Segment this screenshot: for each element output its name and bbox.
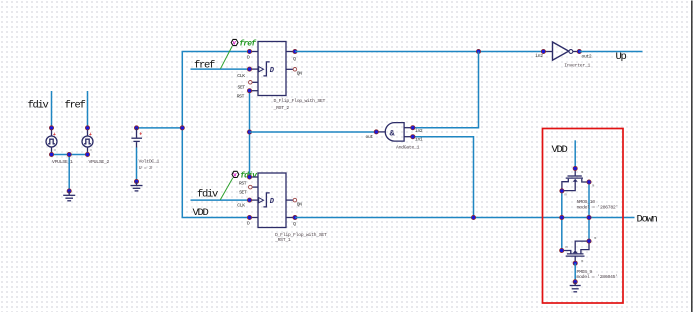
svg-text:VPULSE_2: VPULSE_2	[89, 159, 110, 165]
svg-text:fref: fref	[239, 40, 257, 49]
node in1/Down junction	[471, 215, 475, 219]
wire AND in2 riser	[413, 52, 479, 128]
node PMOS left	[560, 248, 564, 252]
wire fref source top	[87, 91, 89, 128]
wire Down row	[295, 217, 635, 219]
node VDD rail junction	[180, 126, 184, 130]
svg-text:out2: out2	[582, 54, 592, 60]
svg-text:AndGate_1: AndGate_1	[396, 144, 420, 150]
and gate AndGate_1 (mirrored)	[366, 123, 423, 151]
net label VDD (in box)	[552, 144, 568, 156]
node VPULSE_2 top	[85, 126, 89, 130]
svg-text:fdiv: fdiv	[197, 189, 218, 201]
wire fdiv stub to CLK	[191, 199, 250, 201]
svg-text:m: m	[594, 237, 597, 241]
svg-text:CLK: CLK	[237, 73, 245, 79]
node NMOS gate	[587, 180, 591, 184]
svg-text:Inverter_1: Inverter_1	[564, 62, 590, 68]
wire VDD rail vertical	[182, 52, 249, 218]
ground (sources)	[63, 191, 75, 201]
node Down/gate junction	[587, 215, 591, 219]
node Q wire junction	[476, 49, 480, 53]
node sources mid junction	[67, 152, 71, 156]
node U2 D pin	[247, 49, 251, 53]
wire NMOS gate to PMOS gate	[588, 182, 590, 241]
svg-text:QN: QN	[297, 71, 302, 77]
wire sources bottom	[52, 154, 88, 156]
window border right	[691, 1, 693, 312]
svg-text:D: D	[270, 198, 275, 206]
node U1 D pin	[247, 215, 251, 219]
node U2 RST pin	[247, 89, 251, 93]
wire AND out to RST rail	[250, 131, 377, 133]
node Down/source junction	[560, 215, 564, 219]
node RST/AND junction	[247, 130, 251, 134]
node inverter in	[541, 49, 545, 53]
svg-text:+: +	[139, 132, 142, 138]
svg-text:D_Flip_Flop_with_SET: D_Flip_Flop_with_SET	[275, 232, 327, 238]
svg-text:model = '286782': model = '286782'	[577, 205, 618, 211]
pulse source VPULSE_1	[46, 128, 73, 165]
wire RST vertical (U2 to U1)	[249, 91, 251, 177]
svg-text:&: &	[390, 128, 396, 138]
svg-text:CLK: CLK	[237, 202, 245, 208]
svg-text:Up: Up	[616, 51, 627, 63]
pulse source VPULSE_2	[82, 128, 110, 165]
node U1 RST pin	[247, 175, 251, 179]
svg-text:m: m	[581, 171, 584, 175]
svg-text:D: D	[247, 55, 250, 61]
node U1 CLK pin	[247, 198, 251, 202]
node above ground 3	[573, 280, 577, 284]
net label Down	[637, 213, 658, 225]
svg-text:QN: QN	[297, 202, 302, 208]
svg-text:SET: SET	[238, 84, 246, 90]
selection box (red)	[543, 129, 624, 304]
svg-text:D: D	[270, 67, 275, 75]
svg-text:D: D	[247, 221, 250, 227]
flip-flop U1 D_Flip_Flop_with_SET_RST_1	[237, 173, 327, 243]
transistor NMOS_10	[562, 169, 618, 211]
ground (VoltDC)	[131, 182, 143, 191]
svg-text:fref: fref	[65, 99, 86, 111]
node above ground 1	[67, 189, 71, 193]
wire fref stub to CLK	[191, 68, 250, 70]
node U1 Q pin	[293, 215, 297, 219]
svg-text:+: +	[89, 132, 92, 138]
node NMOS source	[560, 189, 564, 193]
voltage probe fdiv	[220, 171, 258, 199]
ground (PMOS)	[570, 282, 581, 292]
svg-text:out: out	[366, 134, 374, 140]
flip-flop U2 D_Flip_Flop_with_SET_RST_2	[237, 42, 326, 111]
svg-text:in1: in1	[415, 137, 423, 143]
node VPULSE_1 bottom	[49, 152, 53, 156]
wire VDD stub (box)	[574, 140, 576, 168]
svg-text:D_Flip_Flop_with_SET: D_Flip_Flop_with_SET	[274, 98, 326, 104]
node inverter out	[577, 49, 581, 53]
svg-text:RST: RST	[239, 180, 247, 186]
net label fref (at U2)	[194, 59, 215, 71]
svg-text:+: +	[53, 132, 56, 138]
wire VoltDC to VDD rail	[137, 127, 183, 129]
svg-text:fref: fref	[194, 59, 215, 71]
transistor PMOS_9	[562, 237, 618, 280]
wire U2 Q to inverter	[295, 51, 543, 53]
node above ground 2	[134, 179, 138, 183]
svg-text:U = 3: U = 3	[139, 165, 152, 171]
svg-text:m: m	[565, 194, 568, 198]
svg-text:_RST_1: _RST_1	[274, 237, 291, 243]
node NMOS drain	[573, 166, 577, 170]
dc source VoltDC_1 V = 3	[131, 128, 159, 171]
node AND in1	[411, 135, 415, 139]
svg-text:in2: in2	[415, 128, 423, 134]
svg-text:Down: Down	[637, 213, 658, 225]
node VPULSE_2 bottom	[85, 152, 89, 156]
svg-text:Q: Q	[293, 56, 296, 62]
wire fdiv source top	[51, 91, 53, 128]
svg-text:SET: SET	[239, 189, 247, 195]
wire AND in1 to Down	[413, 137, 474, 218]
svg-text:=: =	[54, 148, 57, 153]
net label fref (left)	[65, 99, 86, 111]
svg-text:model = '286045': model = '286045'	[577, 274, 618, 280]
svg-text:m: m	[566, 246, 569, 250]
svg-text:VoltDC_1: VoltDC_1	[139, 159, 160, 165]
voltage probe fref	[221, 39, 258, 68]
node VoltDC top	[134, 126, 138, 130]
net label Up	[616, 51, 627, 63]
svg-text:=: =	[90, 148, 93, 153]
svg-text:RST: RST	[237, 93, 245, 99]
svg-text:NMOS_10: NMOS_10	[577, 199, 595, 205]
svg-text:VDD: VDD	[193, 207, 209, 219]
node AND in2	[411, 126, 415, 130]
wire PMOS to ground	[574, 263, 576, 282]
wire Up output	[579, 51, 642, 53]
net label fdiv (left)	[28, 99, 49, 111]
svg-text:_RST_2: _RST_2	[273, 105, 290, 111]
wire NMOS source to PMOS	[561, 191, 563, 251]
node PMOS bottom	[573, 261, 577, 265]
wire VoltDC to ground	[136, 148, 138, 182]
net label VDD (at U1)	[193, 207, 209, 219]
node VPULSE_1 top	[49, 126, 53, 130]
svg-text:fdiv: fdiv	[28, 99, 49, 111]
node U2 Q pin	[293, 49, 297, 53]
svg-text:VDD: VDD	[552, 144, 568, 156]
wire ground stem	[68, 155, 70, 192]
svg-text:m: m	[592, 185, 595, 189]
svg-text:in2: in2	[535, 53, 543, 59]
node PMOS gate	[587, 239, 591, 243]
node U2 CLK pin	[247, 67, 251, 71]
node AND out	[374, 130, 378, 134]
net label fdiv (at U1)	[197, 189, 218, 201]
svg-text:Q: Q	[293, 221, 296, 227]
inverter Inverter_1	[535, 42, 592, 68]
svg-text:m: m	[581, 260, 584, 264]
